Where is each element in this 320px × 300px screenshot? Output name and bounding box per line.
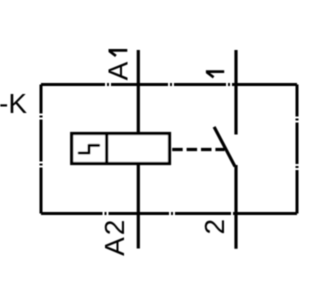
terminal label 1 (digit drawn as path) [206,72,224,78]
enclosure outline (dash-dot boundary box) [41,85,297,214]
terminal label A1 (letter A, digit 1 drawn as path) [103,50,134,80]
contact K NO (moving contact arm) [214,127,235,167]
svg-text:-K: -K [0,88,27,119]
wire A2 lead [137,162,140,249]
svg-text:A: A [103,61,134,80]
svg-text:2: 2 [199,219,230,235]
wire A1 lead [137,50,140,135]
svg-text:A2: A2 [99,218,130,256]
wire terminal 1 (fixed contact lead) [234,50,237,135]
mechanical link (dashed actuator line) [172,148,224,151]
step-switch function symbol inside coil [79,145,99,153]
wire terminal 2 (moving contact lead) [234,165,237,249]
coil K (impulse-relay coil rectangle) [72,134,170,164]
